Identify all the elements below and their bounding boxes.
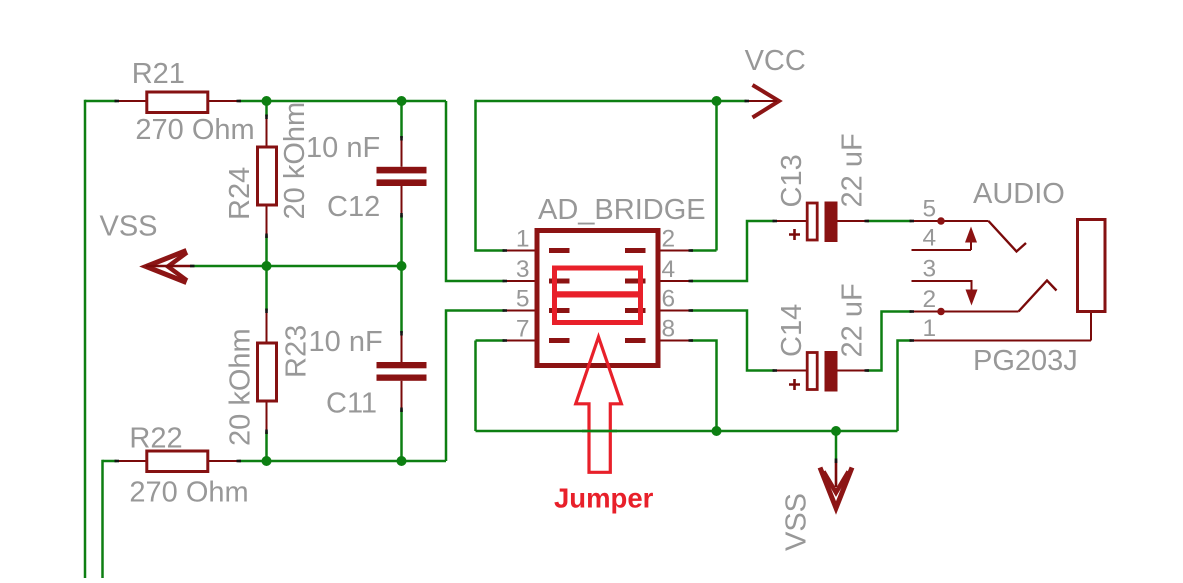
svg-text:R21: R21	[132, 58, 185, 90]
junction dot VSS rail pin8	[712, 426, 722, 436]
capacitor C13 right pin	[838, 220, 867, 222]
jumper highlight middle bar	[552, 291, 643, 297]
resistor R21 pins	[117, 100, 239, 102]
capacitor C14 right plate	[825, 351, 838, 392]
svg-text:C13: C13	[776, 154, 808, 207]
wire VCC top horizontal	[476, 100, 747, 103]
audio jack J1 pin5 switch lever	[989, 221, 1027, 252]
audio jack J1 pin2 wire	[912, 311, 1019, 313]
wire C13 right to jack pin5	[867, 220, 912, 223]
resistor R22 pins	[117, 460, 239, 462]
jumper highlight rectangle	[555, 268, 641, 323]
svg-text:1: 1	[923, 315, 937, 342]
svg-text:4: 4	[923, 225, 937, 252]
resistor R23 bottom green pin stub	[265, 432, 268, 462]
wire VSS-left horizontal	[192, 265, 402, 268]
wire signal2 bottom horizontal right segment	[239, 460, 447, 463]
svg-text:270 Ohm: 270 Ohm	[129, 477, 248, 509]
resistor R23 pins	[266, 311, 268, 432]
wire pin6 to C14	[691, 311, 775, 371]
connector U1 AD_BRIDGE inner pin stubs left	[549, 248, 570, 343]
wire signal2 left drop vertical	[101, 460, 104, 578]
supply symbol VCC chevron	[753, 85, 780, 118]
svg-text:5: 5	[923, 196, 937, 223]
wire pin8 down to VSS rail	[691, 341, 717, 432]
wire signal1 left vertical	[84, 100, 87, 578]
junction dot signal2 C11 bottom	[397, 456, 407, 466]
capacitor C14 left plate	[807, 353, 817, 390]
audio jack J1 body	[1078, 220, 1106, 312]
supply symbol VSS down pin	[835, 461, 838, 488]
resistor R24 bottom green pin stub	[265, 236, 268, 267]
audio jack J1 pin2 switch lever	[1019, 281, 1057, 312]
svg-text:VSS: VSS	[100, 211, 158, 243]
capacitor C14 left pin	[775, 370, 807, 372]
svg-text:C14: C14	[776, 304, 808, 357]
svg-text:C12: C12	[327, 191, 380, 223]
audio jack J1 pin3 wire	[912, 281, 972, 291]
svg-text:R22: R22	[129, 423, 182, 455]
wire signal2 bottom horizontal left segment	[103, 460, 117, 463]
wire C14 right to jack pin2	[867, 312, 912, 371]
audio jack J1 pin5 junction dot	[937, 217, 945, 225]
capacitor C13 left pin	[775, 220, 807, 222]
wire VSS bottom rail horizontal	[476, 430, 898, 433]
wire VSS rail to jack pin1	[898, 341, 912, 432]
connector U1 AD_BRIDGE pins left	[505, 251, 535, 341]
resistor R23 top green pin stub	[265, 266, 268, 311]
svg-text:22 uF: 22 uF	[837, 133, 869, 207]
audio jack J1 pin2 junction dot	[937, 308, 945, 316]
resistor R24 top green pin stub	[265, 101, 268, 117]
wire signal1 top horizontal left segment	[85, 100, 117, 103]
svg-text:4: 4	[662, 256, 676, 283]
svg-text:6: 6	[662, 286, 676, 313]
capacitor C14 right pin	[838, 370, 867, 372]
audio jack J1 pin5 wire	[912, 220, 989, 222]
connector U1 AD_BRIDGE inner pin stubs right	[625, 248, 646, 343]
svg-text:10 nF: 10 nF	[306, 132, 380, 164]
junction dot VCC	[712, 96, 722, 106]
wire signal1 vertical to pin3	[446, 101, 505, 281]
wire C11 bottom to signal2	[400, 410, 403, 462]
resistor R21 body	[147, 92, 208, 113]
resistor R23 body	[258, 343, 277, 401]
svg-text:2: 2	[662, 226, 676, 253]
junction dot signal1 C12 top	[397, 96, 407, 106]
resistor R22 body	[147, 451, 208, 472]
svg-text:3: 3	[923, 256, 937, 283]
svg-text:C11: C11	[326, 388, 377, 420]
wire pin7 down to VSS rail	[476, 341, 505, 432]
svg-text:1: 1	[516, 226, 530, 253]
supply symbol VSS down chevron inner	[824, 472, 849, 493]
wire VSS rail overdraw across jumper arrow shaft	[582, 430, 617, 433]
wire signal2 vertical to pin5	[446, 311, 505, 462]
audio jack J1 pin1 wire	[912, 313, 1092, 341]
svg-text:270 Ohm: 270 Ohm	[135, 114, 254, 146]
svg-text:AD_BRIDGE: AD_BRIDGE	[538, 194, 706, 226]
svg-text:VSS: VSS	[781, 493, 813, 551]
svg-text:8: 8	[662, 316, 676, 343]
svg-text:VCC: VCC	[745, 45, 806, 77]
supply symbol VCC pin	[747, 100, 778, 102]
svg-text:2: 2	[923, 286, 937, 313]
wire VCC to pin2	[691, 100, 717, 251]
svg-text:R24: R24	[224, 167, 256, 220]
capacitor C12 top green pin stub	[400, 101, 403, 138]
resistor R24 body	[258, 147, 277, 205]
svg-text:Jumper: Jumper	[554, 483, 654, 514]
connector U1 AD_BRIDGE body	[537, 231, 658, 366]
junction dot VSS rail supply drop	[831, 426, 841, 436]
resistor R24 pins	[266, 117, 268, 236]
capacitor C14 plus sign	[789, 379, 800, 390]
svg-text:7: 7	[516, 316, 530, 343]
supply symbol VSS left chevron outer	[146, 251, 187, 283]
capacitor C12 pins	[401, 138, 403, 215]
wire signal1 top horizontal right segment	[239, 100, 447, 103]
audio jack J1 pin4 arrow up	[970, 240, 972, 250]
connector U1 AD_BRIDGE pins right	[661, 251, 691, 341]
supply symbol VSS down chevron outer	[820, 468, 852, 509]
jumper annotation block arrow	[576, 337, 622, 472]
junction dot VSS-left R24 bottom	[262, 261, 272, 271]
wire VSS rail drop to VSS symbol	[835, 431, 838, 461]
capacitor C11 pins	[401, 333, 403, 410]
svg-text:PG203J: PG203J	[973, 345, 1078, 377]
svg-text:20 kOhm: 20 kOhm	[225, 328, 257, 446]
svg-text:5: 5	[516, 286, 530, 313]
wire VCC to pin1	[476, 100, 505, 251]
pin connection marks (black)	[115, 101, 915, 463]
junction dot signal2 R23 bottom	[262, 456, 272, 466]
capacitor C13 plus sign	[789, 229, 800, 240]
capacitor C13 left plate	[807, 203, 817, 240]
svg-text:10 nF: 10 nF	[309, 326, 383, 358]
capacitor C11 plates	[377, 362, 427, 381]
audio jack J1 pin4 wire	[912, 249, 972, 251]
supply symbol VSS left pin	[146, 265, 192, 268]
junction dot signal1 R24 top	[262, 96, 272, 106]
wire pin4 to C13	[691, 221, 775, 281]
capacitor C12 plates	[377, 167, 427, 186]
svg-text:3: 3	[516, 256, 530, 283]
svg-text:22 uF: 22 uF	[837, 283, 869, 357]
wire C12 bottom to C11 top vertical	[400, 215, 403, 333]
junction dot VSS-left C12 bottom	[397, 261, 407, 271]
capacitor C13 right plate	[825, 202, 838, 243]
supply symbol VSS left chevron inner	[168, 253, 187, 281]
svg-text:AUDIO: AUDIO	[973, 178, 1065, 210]
audio jack J1 pin3 arrow down	[966, 290, 978, 306]
